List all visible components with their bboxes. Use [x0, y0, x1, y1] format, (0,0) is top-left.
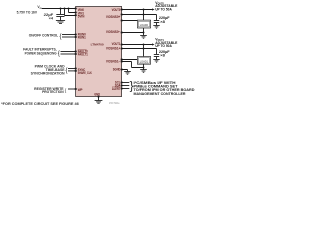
- svg-text:SHARE_CLK: SHARE_CLK: [78, 71, 93, 75]
- svg-text:WP: WP: [78, 88, 84, 92]
- svg-text:VOSNS0+: VOSNS0+: [106, 15, 121, 19]
- svg-text:*FOR COMPLETE CIRCUIT SEE FIGU: *FOR COMPLETE CIRCUIT SEE FIGURE 46: [1, 102, 79, 106]
- svg-text:VOSNS0−: VOSNS0−: [106, 30, 121, 34]
- svg-text:VOUT0: VOUT0: [112, 8, 121, 12]
- svg-text:ON/OFF CONTROL: ON/OFF CONTROL: [29, 34, 59, 38]
- svg-text:VOSNS1+: VOSNS1+: [106, 47, 121, 51]
- svg-text:MANAGEMENT CONTROLLER: MANAGEMENT CONTROLLER: [134, 92, 187, 96]
- svg-text:RUN1: RUN1: [78, 35, 86, 39]
- svg-text:UP TO 50A: UP TO 50A: [155, 44, 172, 48]
- svg-text:×8: ×8: [160, 53, 165, 57]
- svg-text:PROTECTION: PROTECTION: [42, 90, 64, 94]
- svg-text:LOAD1: LOAD1: [140, 59, 149, 63]
- svg-text:LOAD0: LOAD0: [140, 23, 149, 27]
- svg-text:VOUT1: VOUT1: [112, 42, 121, 46]
- svg-text:5VIN: 5VIN: [78, 14, 85, 18]
- svg-text:POWER SEQUENCING: POWER SEQUENCING: [25, 51, 57, 55]
- svg-text:SYNCHRONIZATION: SYNCHRONIZATION: [31, 71, 66, 75]
- svg-text:UP TO 50A: UP TO 50A: [155, 7, 172, 11]
- svg-text:4700 TA01a: 4700 TA01a: [109, 101, 120, 105]
- svg-text:5.75V TO 16V: 5.75V TO 16V: [17, 10, 38, 14]
- svg-text:GND: GND: [94, 92, 100, 96]
- svg-text:LTM4700: LTM4700: [91, 43, 104, 47]
- svg-text:×4: ×4: [49, 17, 54, 21]
- svg-text:×8: ×8: [160, 20, 165, 24]
- svg-text:FAULT1: FAULT1: [78, 52, 88, 56]
- svg-text:SGND: SGND: [113, 67, 121, 71]
- svg-text:ALERT: ALERT: [112, 87, 121, 91]
- svg-text:VOSNS1−: VOSNS1−: [106, 59, 121, 63]
